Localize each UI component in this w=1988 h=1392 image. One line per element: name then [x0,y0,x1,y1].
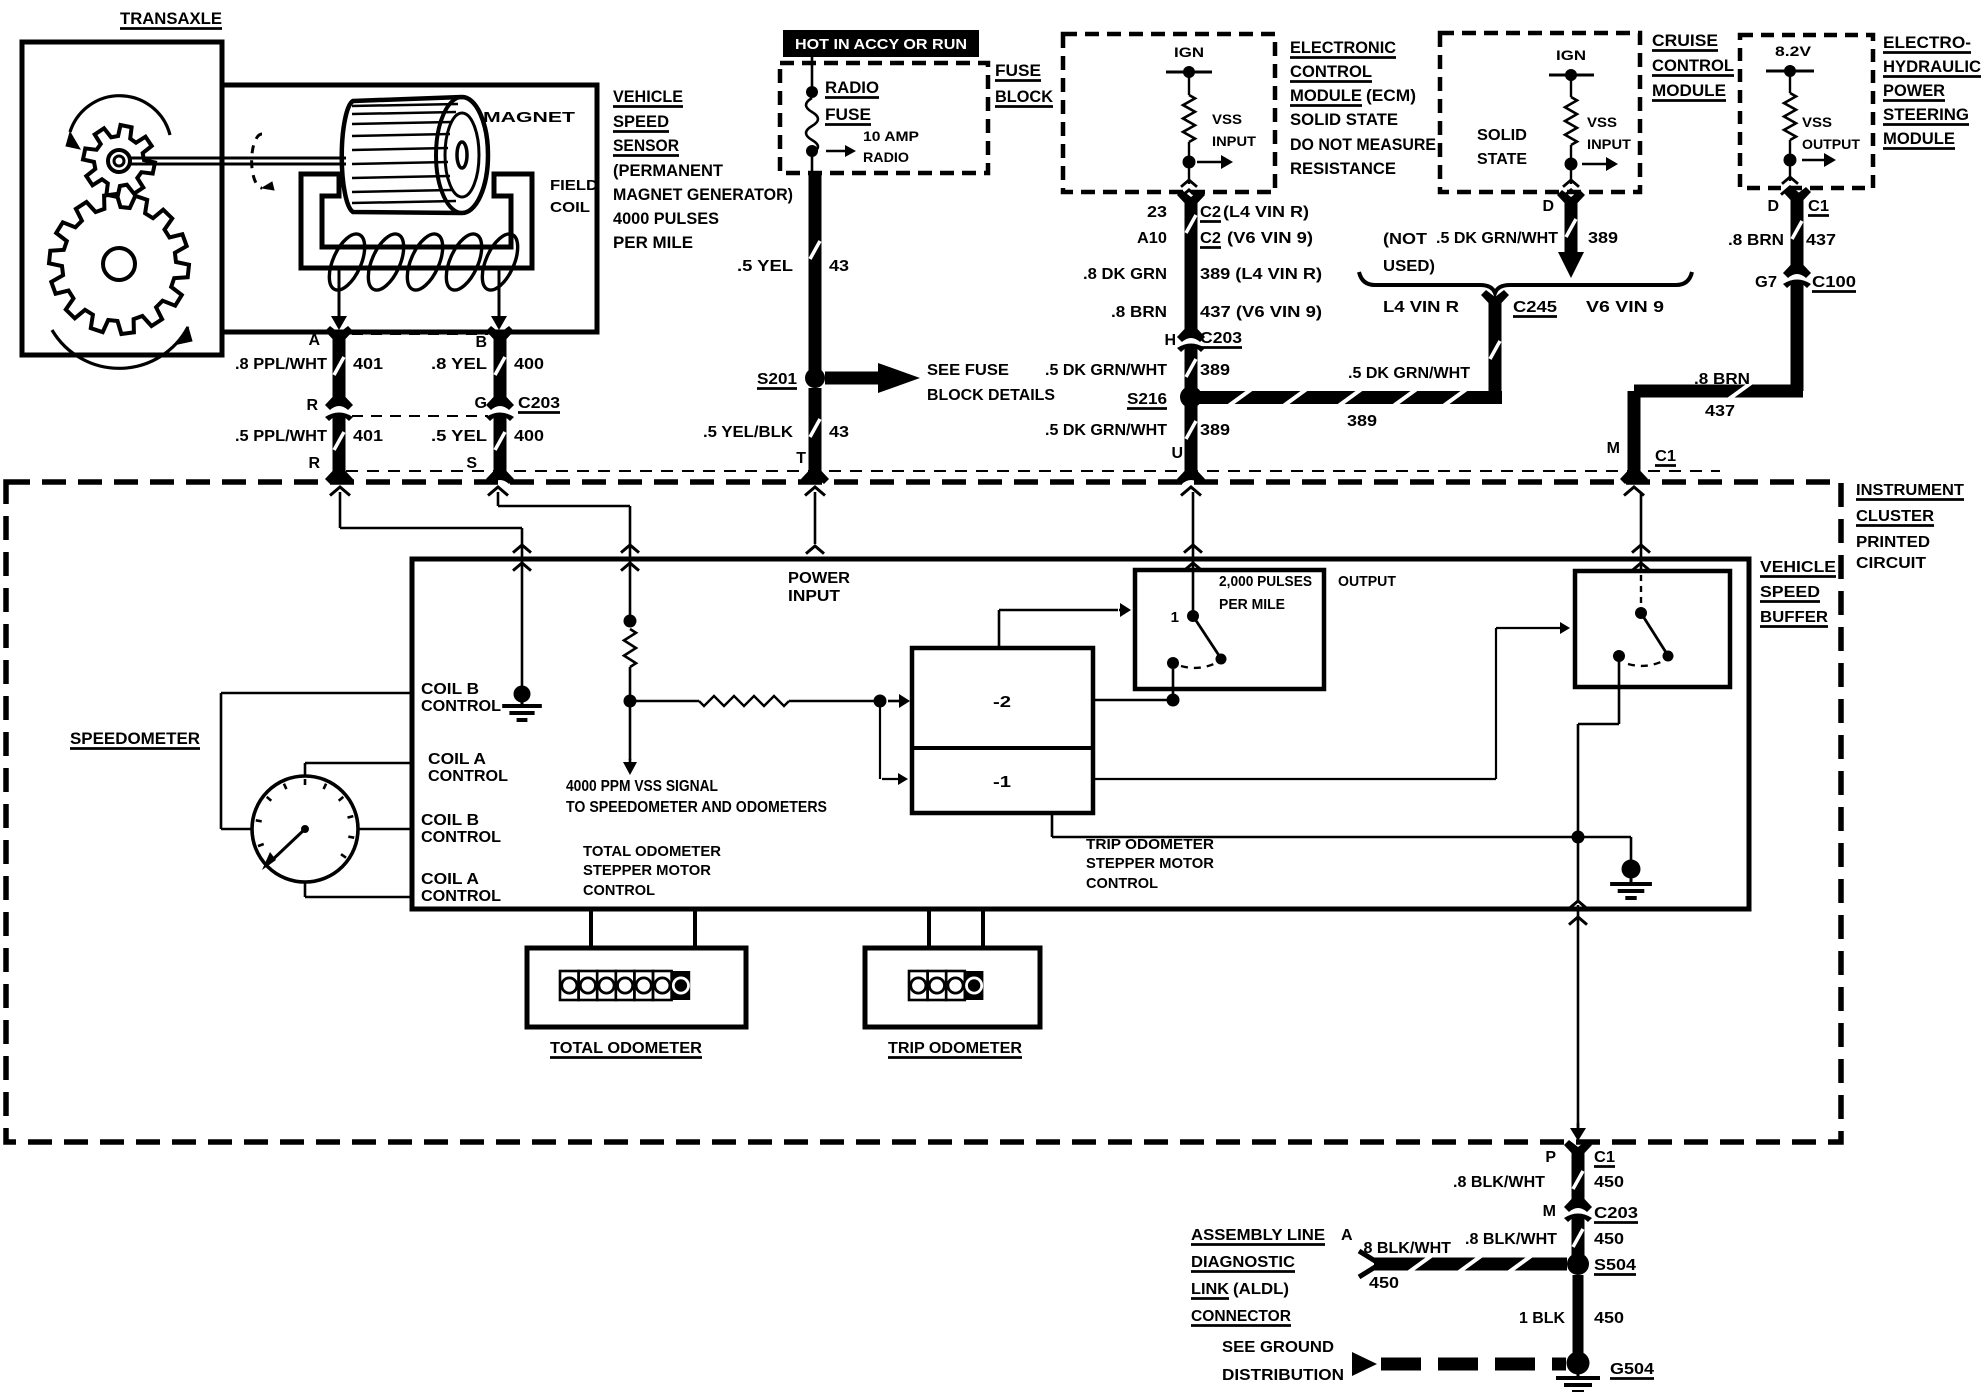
wire 400 lower (.5 YEL) [486,413,514,426]
trip odometer box [865,948,1040,1027]
svg-text:C1: C1 [1594,1149,1615,1166]
svg-text:R: R [306,397,318,414]
svg-text:D: D [1767,198,1779,215]
svg-text:CONTROL: CONTROL [421,888,501,905]
ECM dashed box [1063,34,1275,192]
wire U up from divider [1192,492,1195,570]
cruise control dashed box [1440,33,1640,192]
svg-text:D: D [1542,198,1554,215]
wire 450 ALDL to S504 hatched [1359,1251,1380,1277]
svg-text:BLOCK: BLOCK [995,87,1054,106]
gauge wires to coil terminals [221,828,252,831]
svg-text:U: U [1171,445,1183,462]
fuse output arrow [826,150,847,153]
speedometer gauge [252,776,358,882]
see fuse block details arrow [825,372,880,385]
splice S504 [1567,1253,1589,1275]
stepper box bottom to buffer junction [1051,813,1054,837]
transaxle box [22,42,222,355]
svg-text:USED): USED) [1383,258,1435,275]
svg-text:8.2V: 8.2V [1775,43,1812,59]
svg-text:.5 DK GRN/WHT: .5 DK GRN/WHT [1045,362,1167,379]
vehicle speed sensor box [222,85,597,332]
wire 389 C245 down to S216 hatched [1481,290,1509,312]
svg-text:VSS: VSS [1587,114,1617,130]
shaft rotation dashed ellipse [252,134,262,188]
2000 pulses per mile divider box [1135,570,1324,689]
svg-text:G504: G504 [1610,1361,1654,1378]
svg-text:.5 PPL/WHT: .5 PPL/WHT [235,428,327,445]
printed circuit main box [412,559,1749,909]
svg-text:(V6 VIN 9): (V6 VIN 9) [1227,230,1313,247]
svg-text:DO NOT MEASURE: DO NOT MEASURE [1290,135,1436,154]
svg-text:CONNECTOR: CONNECTOR [1191,1308,1291,1325]
4000 ppm arrow [629,707,632,760]
svg-text:COIL A: COIL A [428,751,486,768]
fuse block dashed box [780,63,988,173]
total odometer digits [560,971,579,1000]
svg-text:CONTROL: CONTROL [1086,875,1158,892]
svg-text:B: B [475,334,487,351]
svg-text:M: M [1543,1203,1556,1220]
svg-text:450: 450 [1594,1174,1624,1191]
stepper motor driver box [912,648,1093,813]
connector C203 dashed rows (sensor side) [352,333,488,335]
svg-text:MODULE: MODULE [1652,81,1726,100]
wire S to vss resistor [497,492,500,506]
wire 389 S216 to terminal U [1185,404,1198,466]
svg-text:CRUISE: CRUISE [1652,31,1718,50]
divider switch [1192,570,1195,612]
svg-text:CONTROL: CONTROL [428,768,508,785]
branch to -1 [879,707,881,779]
svg-text:S216: S216 [1127,391,1167,408]
sensor shaft [128,157,346,160]
svg-text:1 BLK: 1 BLK [1519,1310,1565,1327]
svg-text:C1: C1 [1655,448,1676,465]
svg-text:VEHICLE: VEHICLE [1760,559,1836,576]
wire 401 upper (.8 PPL/WHT) [325,326,353,348]
svg-text:ELECTRO-: ELECTRO- [1883,33,1971,52]
svg-text:4000 PPM VSS SIGNAL: 4000 PPM VSS SIGNAL [566,778,718,795]
svg-text:G7: G7 [1755,274,1777,291]
svg-text:389: 389 [1200,422,1230,439]
svg-text:INPUT: INPUT [1587,136,1631,152]
svg-text:389: 389 [1347,413,1377,430]
wire 450 (.8 BLK/WHT) C1 to C203 [1572,1160,1585,1200]
svg-text:389: 389 [1200,362,1230,379]
svg-text:MODULE: MODULE [1290,86,1362,105]
dashed ground wire [1381,1358,1566,1371]
svg-text:RADIO: RADIO [863,149,909,165]
cruise VSS resistor [1565,97,1577,145]
svg-text:400: 400 [514,356,544,373]
svg-text:(PERMANENT: (PERMANENT [613,161,724,180]
svg-text:S201: S201 [757,371,797,388]
svg-text:VSS: VSS [1212,111,1242,127]
svg-text:(ECM): (ECM) [1366,86,1416,105]
svg-text:C100: C100 [1812,274,1856,291]
buffer output down to P [1577,843,1580,901]
wire 450 (1 BLK) S504 to G504 [1573,1275,1584,1358]
svg-text:SPEEDOMETER: SPEEDOMETER [70,729,200,748]
svg-text:TO SPEEDOMETER AND ODOMETERS: TO SPEEDOMETER AND ODOMETERS [566,799,827,816]
resistor to stepper -2 [636,700,699,703]
svg-text:FIELD: FIELD [550,177,598,194]
svg-text:CONTROL: CONTROL [583,882,655,899]
svg-text:43: 43 [829,258,849,275]
wire -2 to divider box [998,610,1001,648]
ground (speedometer coil common) [514,686,531,703]
svg-text:SOLID STATE: SOLID STATE [1290,110,1398,129]
svg-text:TRIP ODOMETER: TRIP ODOMETER [888,1040,1022,1057]
svg-text:SPEED: SPEED [1760,584,1820,601]
buffer input from -1 [1093,778,1496,780]
svg-text:TRIP ODOMETER: TRIP ODOMETER [1086,836,1214,853]
svg-text:TOTAL ODOMETER: TOTAL ODOMETER [583,843,721,860]
svg-text:.5 YEL: .5 YEL [737,258,793,275]
EHPS dashed box [1740,35,1873,188]
svg-text:COIL: COIL [550,199,590,216]
box top crossing chevrons [513,545,531,553]
svg-text:401: 401 [353,428,383,445]
svg-text:.8 BRN: .8 BRN [1694,371,1750,388]
svg-text:.8 PPL/WHT: .8 PPL/WHT [235,356,327,373]
svg-text:HYDRAULIC: HYDRAULIC [1883,57,1981,76]
svg-text:H: H [1164,332,1176,349]
instrument cluster dashed border [6,482,1841,1142]
svg-text:.5 YEL: .5 YEL [431,428,487,445]
svg-text:T: T [796,450,806,467]
svg-text:STEPPER MOTOR: STEPPER MOTOR [583,862,711,879]
svg-text:C2: C2 [1200,204,1221,221]
rotation arc large gear [52,327,188,368]
svg-text:ELECTRONIC: ELECTRONIC [1290,38,1396,57]
svg-text:C203: C203 [518,395,560,412]
rotation arc small gear [70,96,170,135]
svg-text:.5 DK GRN/WHT: .5 DK GRN/WHT [1348,365,1470,382]
svg-text:PRINTED: PRINTED [1856,534,1930,551]
svg-text:A10: A10 [1137,230,1167,247]
ECM internal node [1183,156,1196,169]
EHPS VSS resistor [1784,93,1796,140]
svg-text:C2: C2 [1200,230,1221,247]
svg-text:S504: S504 [1594,1257,1636,1274]
svg-text:COIL B: COIL B [421,812,479,829]
svg-text:-1: -1 [993,774,1011,791]
svg-text:450: 450 [1369,1275,1399,1292]
buffer ground [1578,836,1631,839]
svg-text:C1: C1 [1808,198,1829,215]
svg-text:10 AMP: 10 AMP [863,128,919,144]
svg-text:STATE: STATE [1477,151,1527,168]
svg-text:.8 DK GRN: .8 DK GRN [1083,266,1167,283]
svg-text:VEHICLE: VEHICLE [613,87,683,106]
svg-text:STEERING: STEERING [1883,105,1969,124]
svg-text:CONTROL: CONTROL [421,698,501,715]
svg-text:CONTROL: CONTROL [421,829,501,846]
svg-text:RESISTANCE: RESISTANCE [1290,159,1396,178]
trip odometer stub wires [927,909,931,948]
svg-text:VSS: VSS [1802,114,1832,130]
svg-text:RADIO: RADIO [825,78,879,97]
sensor lead arrows [338,268,341,319]
svg-text:STEPPER MOTOR: STEPPER MOTOR [1086,855,1214,872]
svg-text:C203: C203 [1594,1205,1638,1222]
svg-text:389 (L4 VIN R): 389 (L4 VIN R) [1200,266,1322,283]
svg-text:R: R [308,455,320,472]
svg-text:4000 PULSES: 4000 PULSES [613,209,719,228]
svg-text:HOT IN ACCY OR RUN: HOT IN ACCY OR RUN [795,36,967,53]
svg-text:.8 BRN: .8 BRN [1111,304,1167,321]
svg-text:COIL A: COIL A [421,871,479,888]
svg-text:CLUSTER: CLUSTER [1856,508,1934,525]
svg-text:MAGNET: MAGNET [483,109,575,126]
svg-text:A: A [308,332,320,349]
svg-text:COIL B: COIL B [421,681,479,698]
svg-text:437: 437 [1705,403,1735,420]
svg-text:437 (V6 VIN 9): 437 (V6 VIN 9) [1200,304,1322,321]
vehicle speed buffer box [1575,571,1730,687]
svg-text:(L4 VIN R): (L4 VIN R) [1223,204,1309,221]
wire 389 C203 to S216 [1185,352,1198,390]
svg-text:INSTRUMENT: INSTRUMENT [1856,482,1964,499]
svg-text:A: A [1341,1227,1353,1244]
svg-text:M: M [1607,440,1620,457]
svg-text:V6 VIN 9: V6 VIN 9 [1586,299,1664,316]
svg-text:.5 YEL/BLK: .5 YEL/BLK [703,424,793,441]
svg-text:.8 BLK/WHT: .8 BLK/WHT [1465,1231,1557,1248]
svg-text:437: 437 [1806,232,1836,249]
wire into fuse [811,57,814,92]
svg-text:SENSOR: SENSOR [613,136,679,155]
splice dot below fuse [806,145,818,157]
ground G504 [1567,1352,1590,1375]
svg-text:OUTPUT: OUTPUT [1338,573,1396,590]
svg-text:.8 BLK/WHT: .8 BLK/WHT [1453,1174,1545,1191]
wire -2 output right [1093,699,1167,702]
svg-text:BLOCK DETAILS: BLOCK DETAILS [927,387,1055,404]
svg-text:400: 400 [514,428,544,445]
gauge needle [268,829,305,864]
svg-text:TRANSAXLE: TRANSAXLE [120,9,222,28]
svg-text:BUFFER: BUFFER [1760,609,1828,626]
total odometer box [527,948,746,1027]
svg-text:1: 1 [1171,609,1179,626]
svg-text:INPUT: INPUT [1212,133,1256,149]
svg-text:S: S [466,455,477,472]
svg-text:MODULE: MODULE [1883,129,1955,148]
field coil winding [322,229,372,295]
svg-text:POWER: POWER [1883,81,1945,100]
hot in accy banner [783,30,979,57]
svg-text:MAGNET GENERATOR): MAGNET GENERATOR) [613,185,793,204]
svg-text:LINK: LINK [1191,1281,1229,1298]
border crossing chevrons [330,487,350,496]
svg-text:CIRCUIT: CIRCUIT [1856,555,1926,572]
instrument cluster connector dashed row [346,470,1720,472]
svg-text:IGN: IGN [1556,47,1586,63]
svg-text:.8 BRN: .8 BRN [1728,232,1784,249]
svg-text:PER MILE: PER MILE [1219,596,1285,613]
svg-text:ASSEMBLY LINE: ASSEMBLY LINE [1191,1227,1325,1244]
svg-text:SPEED: SPEED [613,112,669,131]
total odometer stub wires [589,909,593,948]
svg-text:(ALDL): (ALDL) [1233,1281,1289,1298]
trip odometer digits [909,971,928,1000]
svg-text:TOTAL ODOMETER: TOTAL ODOMETER [550,1040,702,1057]
svg-text:C245: C245 [1513,299,1557,316]
magnet rotor cylinder [342,97,488,213]
wire 400 upper (.8 YEL) [486,326,514,348]
small drive gear [83,125,155,197]
field coil yoke [301,174,532,268]
svg-text:.5 DK GRN/WHT: .5 DK GRN/WHT [1436,230,1558,247]
svg-text:43: 43 [829,424,849,441]
wire 389/437 ECM to C203 [1177,190,1205,212]
svg-text:450: 450 [1594,1231,1624,1248]
wire 437 C100 down and left to M C1 [1791,288,1804,391]
brace C245 [1359,272,1692,293]
svg-text:SEE GROUND: SEE GROUND [1222,1339,1334,1356]
svg-text:C203: C203 [1200,330,1242,347]
svg-text:INPUT: INPUT [788,588,840,605]
radio fuse element [806,98,818,153]
svg-text:L4 VIN R: L4 VIN R [1383,299,1460,316]
svg-text:2,000 PULSES: 2,000 PULSES [1219,573,1312,590]
svg-text:SOLID: SOLID [1477,127,1527,144]
svg-text:.5 DK GRN/WHT: .5 DK GRN/WHT [1045,422,1167,439]
wire 43 (.5 YEL/BLK) S201 to cluster [809,388,822,466]
vss signal resistor chain [624,615,637,628]
buffer switch [1640,492,1643,571]
svg-text:G: G [475,395,487,412]
svg-text:(NOT: (NOT [1383,231,1427,248]
svg-text:IGN: IGN [1174,44,1204,60]
svg-text:450: 450 [1594,1310,1624,1327]
svg-text:401: 401 [353,356,383,373]
ECM VSS input resistor [1183,95,1195,142]
svg-text:-2: -2 [993,694,1011,711]
svg-text:DISTRIBUTION: DISTRIBUTION [1222,1367,1344,1384]
wire R to coil ground [339,492,342,528]
svg-text:SEE FUSE: SEE FUSE [927,362,1009,379]
svg-text:.8 YEL: .8 YEL [431,356,487,373]
splice dot above fuse [806,86,818,98]
svg-text:DIAGNOSTIC: DIAGNOSTIC [1191,1254,1295,1271]
large driven gear [49,194,189,334]
svg-text:FUSE: FUSE [825,105,871,124]
buffer output path [1618,656,1621,724]
wire 389 cruise to C245 brace [1557,190,1585,212]
svg-text:389: 389 [1588,230,1618,247]
svg-text:CONTROL: CONTROL [1652,56,1734,75]
wire 401 lower (.5 PPL/WHT) [325,413,353,426]
svg-text:.8 BLK/WHT: .8 BLK/WHT [1359,1240,1451,1257]
wire 43 (.5 YEL) fuse block to S201 [811,151,814,173]
svg-text:POWER: POWER [788,570,850,587]
svg-text:FUSE: FUSE [995,61,1041,80]
svg-text:PER MILE: PER MILE [613,233,693,252]
svg-text:23: 23 [1147,204,1167,221]
svg-text:P: P [1545,1149,1556,1166]
wire 450 C203 to S504 [1572,1222,1585,1255]
wire 437 EHPS to C100 [1783,187,1811,209]
svg-text:OUTPUT: OUTPUT [1802,136,1860,152]
svg-text:CONTROL: CONTROL [1290,62,1372,81]
